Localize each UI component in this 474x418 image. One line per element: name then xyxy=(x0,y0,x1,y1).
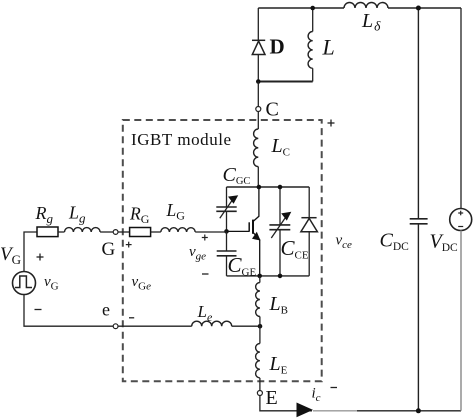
svg-text:Lδ: Lδ xyxy=(361,10,381,34)
inductor LC xyxy=(254,129,259,167)
wire gate node to CGE xyxy=(226,231,228,251)
arrow of CGC xyxy=(220,201,232,219)
label vge plus xyxy=(202,235,208,241)
wire Lg to node G xyxy=(100,231,113,233)
VDC minus xyxy=(458,226,463,228)
svg-text:vce: vce xyxy=(336,233,353,252)
diode D xyxy=(252,40,265,54)
VDC branch upper wire xyxy=(460,8,462,209)
CDC branch lower wire xyxy=(417,224,419,411)
wire junction to node C xyxy=(257,82,259,107)
minus sign node e xyxy=(129,317,134,319)
wire CGE to bottom xyxy=(226,256,228,276)
left parasitic branch upper (to CGC) xyxy=(226,187,228,207)
inductor Le xyxy=(192,321,232,326)
svg-text:VDC: VDC xyxy=(430,231,459,255)
svg-text:Rg: Rg xyxy=(35,203,54,226)
arrow of CCE xyxy=(271,218,285,239)
VG pulse symbol xyxy=(15,276,32,288)
svg-text:VG: VG xyxy=(0,244,21,267)
svg-text:IGBT module: IGBT module xyxy=(131,130,232,149)
svg-text:G: G xyxy=(102,239,116,260)
freewheeling diode branch xyxy=(308,187,310,217)
node E circle xyxy=(257,391,262,396)
wire LC to collector node xyxy=(257,167,259,187)
minus sign VG xyxy=(35,309,42,311)
junction dot D/L loop bottom xyxy=(256,79,261,84)
node e circle xyxy=(113,324,118,329)
node G circle xyxy=(113,230,118,235)
svg-text:CGC: CGC xyxy=(223,164,251,187)
svg-text:Le: Le xyxy=(197,302,213,324)
plus sign node G xyxy=(126,242,132,248)
source VDC xyxy=(450,209,472,231)
wire diode to junction xyxy=(257,55,259,82)
inductor L branch xyxy=(312,8,314,32)
label vge minus xyxy=(202,273,209,275)
resistor Rg xyxy=(37,227,58,237)
wire Rg to Lg xyxy=(58,231,65,233)
capacitor CGC variable xyxy=(216,207,236,211)
junction dot emitter bottom xyxy=(257,274,262,279)
junction dots CCE xyxy=(278,185,283,190)
plus sign VG xyxy=(37,254,44,261)
svg-text:C: C xyxy=(266,99,279,121)
capacitor CCE variable branch xyxy=(279,187,281,225)
wire left vertical (top loop, to diode) xyxy=(257,8,259,40)
svg-text:e: e xyxy=(102,300,110,320)
wire VG bottom to node e xyxy=(24,295,113,327)
inductor LE xyxy=(256,344,260,378)
inner rect top wire xyxy=(227,186,310,188)
wire C to LC xyxy=(257,112,259,130)
node C circle xyxy=(256,107,261,112)
svg-text:L: L xyxy=(322,35,335,60)
svg-text:Lg: Lg xyxy=(68,203,86,226)
VDC plus xyxy=(458,211,463,216)
wire LB to junction xyxy=(259,317,261,344)
svg-text:LB: LB xyxy=(269,293,288,317)
svg-text:LG: LG xyxy=(166,200,186,223)
wire Le to emitter branch xyxy=(232,325,260,327)
inductor Lg xyxy=(65,228,101,232)
wire e to Le xyxy=(118,325,192,327)
svg-text:D: D xyxy=(270,35,285,59)
svg-text:E: E xyxy=(266,387,278,409)
current arrow ic xyxy=(297,403,314,418)
wire G to RG xyxy=(118,231,130,233)
svg-text:LC: LC xyxy=(271,135,290,159)
wire RG to LG xyxy=(151,231,161,233)
junction dot CDC bottom xyxy=(416,408,421,413)
wire LG to gate junction xyxy=(195,231,226,233)
svg-text:vG: vG xyxy=(44,274,59,293)
wire E to bottom bus xyxy=(260,396,312,411)
wire emitter to LB xyxy=(259,276,261,283)
junction dot CDC top xyxy=(416,6,421,11)
wire CGC to gate node xyxy=(226,211,228,231)
svg-text:ic: ic xyxy=(312,386,321,405)
svg-text:CGE: CGE xyxy=(228,253,257,279)
svg-text:CCE: CCE xyxy=(281,236,309,262)
plus sign top right of box xyxy=(328,120,335,127)
inductor LG xyxy=(161,228,195,232)
junction dot e-branch xyxy=(258,324,263,329)
junction dot gate node xyxy=(224,229,229,234)
svg-text:vge: vge xyxy=(189,244,206,263)
IGBT Q1 xyxy=(227,187,260,276)
IGBT module dashed box xyxy=(123,120,322,381)
svg-text:vGe: vGe xyxy=(132,274,152,293)
gate drive: VG source xyxy=(13,272,36,295)
inner rect bottom wire xyxy=(227,275,310,277)
CDC branch upper wire xyxy=(417,7,419,219)
inductor LB xyxy=(256,283,260,317)
minus sign bottom right of box xyxy=(331,387,338,389)
wire bottom of D/L loop xyxy=(258,81,312,83)
resistor RG xyxy=(130,228,151,237)
junction dot collector top xyxy=(257,185,262,190)
svg-text:LE: LE xyxy=(269,353,288,377)
svg-text:RG: RG xyxy=(129,204,150,227)
svg-text:CDC: CDC xyxy=(380,230,410,254)
wire bottom bus to right xyxy=(357,410,461,412)
wire top bus xyxy=(258,7,461,9)
IGBT emitter arrow xyxy=(252,232,261,241)
inductor Ldelta xyxy=(344,3,388,9)
VDC branch lower wire xyxy=(460,231,462,411)
capacitor CGE xyxy=(217,251,237,256)
junction dot top wire at L branch xyxy=(310,6,315,11)
wire bottom bus gray segment xyxy=(313,410,357,412)
wire VG top to Rg xyxy=(24,232,37,272)
capacitor CDC xyxy=(410,219,428,224)
wire LE to node E xyxy=(259,378,261,391)
